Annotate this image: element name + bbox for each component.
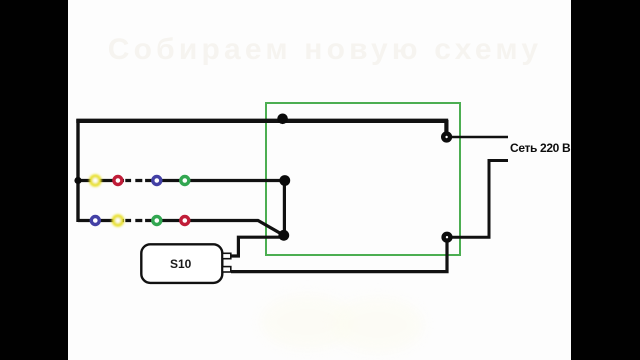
junction: row1 left dot [74,177,81,184]
wire: bottom return to S10 [231,240,447,272]
wire: mains bottom lead bracket [452,161,508,238]
junction: row2 node dot [278,230,289,241]
terminal: bottom-right open dot [444,234,451,241]
contact ring blue row1 [153,177,161,185]
wire: row 2 solid right with diagonal [151,221,283,236]
wire: row 1 solid left [78,179,124,182]
junction: top node dot [277,114,288,125]
S10 relay box [141,244,222,283]
watermark title [5,33,640,67]
wire: row 1 dashed section [125,179,151,182]
contact ring blue row2 [91,217,99,225]
wire: row 1 solid right [151,179,285,182]
wire: node link vertical [283,181,286,236]
watermark smudge bottom [260,294,355,350]
svg-text:S10: S10 [170,257,192,271]
wire: left vertical bus [76,119,79,222]
S10 pin lower [223,267,231,272]
right letterbox pillar [571,0,640,360]
wire: mains top lead [450,136,508,139]
wire: top horizontal feed [76,119,448,123]
S10 pin upper [223,253,231,258]
contact ring red row1 [114,177,122,185]
contact ring yellow row1 [91,176,100,185]
svg-text:Сеть 220 В: Сеть 220 В [510,141,571,155]
junction: row1 right node dot [279,175,290,186]
green enclosure box [266,103,460,255]
wire: row 2 solid left [78,219,124,222]
wire: S10 top pin to node [231,237,281,256]
contact ring red row2 [181,217,189,225]
contact ring green row1 [181,177,189,185]
contact ring yellow row2 [113,216,122,225]
wire: row 2 dashed section [125,219,151,222]
wire: drop to top terminal [444,120,448,134]
left letterbox pillar [0,0,68,360]
terminal: top-right open dot [443,134,450,141]
contact ring green row2 [153,217,161,225]
